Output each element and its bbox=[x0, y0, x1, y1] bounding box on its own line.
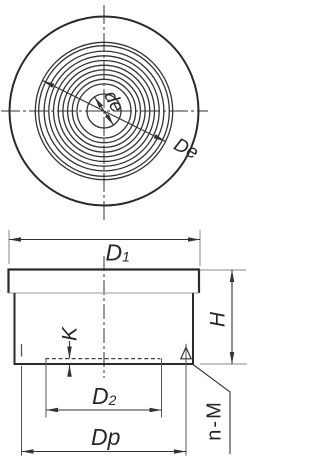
groove circle r65 bbox=[39, 46, 170, 177]
leader line n-M bbox=[193, 365, 230, 455]
groove circle r50 bbox=[54, 61, 155, 162]
groove circle r36 bbox=[68, 75, 141, 148]
Dp extension line left lower bbox=[21, 366, 23, 456]
svg-text:De: De bbox=[170, 134, 201, 164]
Dp extension line right bbox=[185, 344, 187, 456]
H extension line bottom bbox=[200, 363, 247, 365]
flange bottom line bbox=[9, 292, 200, 294]
H extension line top bbox=[200, 269, 247, 271]
svg-text:D2: D2 bbox=[92, 383, 117, 409]
dimension line D1 bbox=[9, 239, 200, 241]
dimension line H bbox=[231, 270, 233, 364]
D1 extension line right bbox=[199, 230, 201, 266]
groove circle r46 bbox=[58, 65, 150, 157]
vertical centerline bbox=[103, 5, 105, 220]
dimension line Dp bbox=[22, 451, 187, 453]
K dimension upper arrow bbox=[69, 341, 71, 359]
D2 extension line right bbox=[161, 359, 163, 418]
svg-text:n-M: n-M bbox=[203, 400, 225, 440]
vertical centerline lower bbox=[103, 256, 105, 378]
svg-text:H: H bbox=[207, 311, 230, 327]
outer circle bbox=[10, 17, 199, 206]
groove circle r69 bbox=[35, 42, 172, 179]
svg-text:K: K bbox=[59, 326, 82, 341]
K dimension lower arrow bbox=[69, 365, 71, 375]
body outline bbox=[15, 293, 194, 364]
D2 extension line left bbox=[45, 359, 47, 418]
Dp extension line left upper bbox=[21, 344, 23, 357]
tapped hole triangle symbol bbox=[181, 347, 191, 359]
horizontal centerline bbox=[1, 110, 208, 112]
dimension line D2 bbox=[46, 409, 162, 411]
groove circle r41 bbox=[63, 70, 145, 152]
inner circle de bbox=[87, 94, 121, 128]
groove circle r55 bbox=[49, 56, 159, 166]
svg-text:Dp: Dp bbox=[91, 424, 121, 450]
groove circle r32 bbox=[72, 79, 135, 142]
groove circle r27 bbox=[77, 84, 131, 138]
flange outline bbox=[9, 270, 200, 294]
svg-text:D1: D1 bbox=[106, 240, 130, 266]
hidden interior floor (dashed) bbox=[45, 358, 160, 360]
dimension line De bbox=[43, 81, 166, 142]
D1 extension line left bbox=[8, 230, 10, 264]
groove circle r60 bbox=[44, 51, 164, 171]
dimension line de bbox=[95, 97, 114, 125]
